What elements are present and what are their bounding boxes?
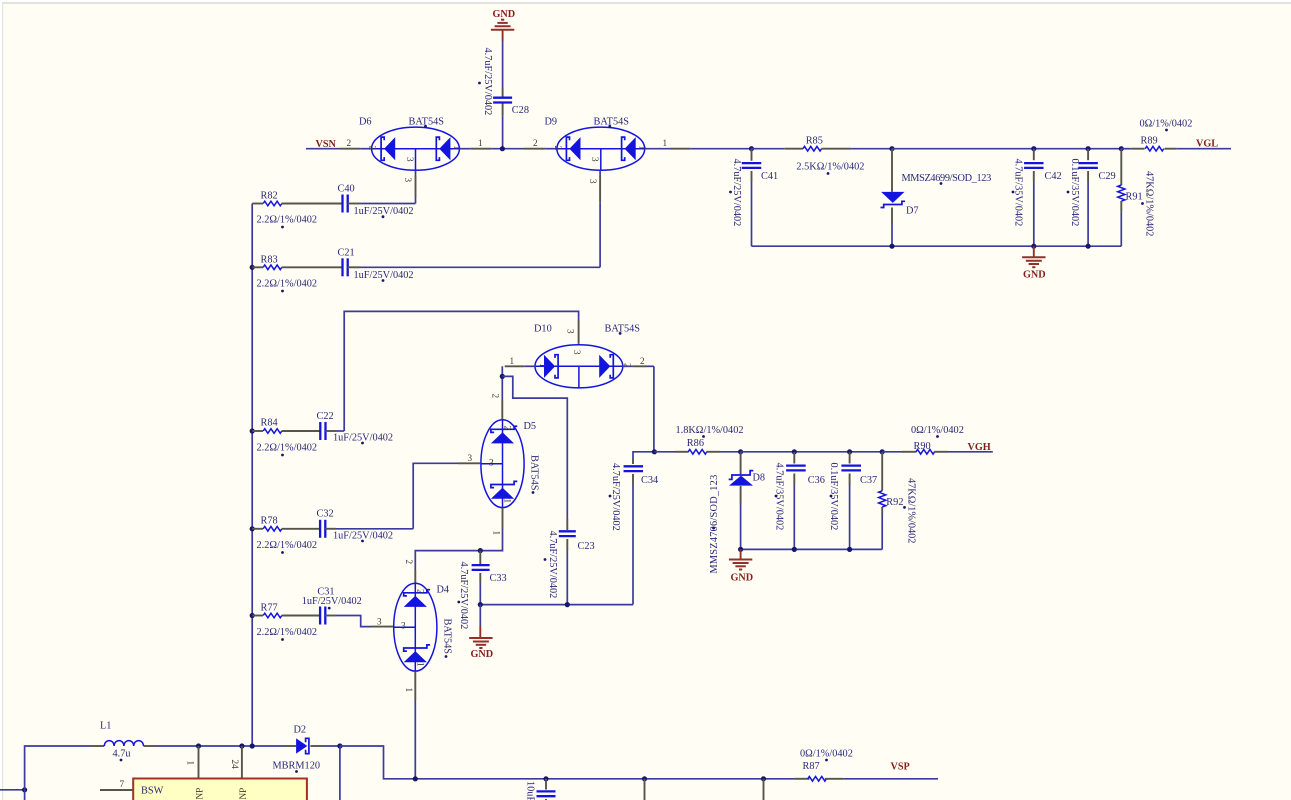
svg-text:2.2Ω/1%/0402: 2.2Ω/1%/0402 — [257, 627, 318, 638]
svg-text:MBRM120: MBRM120 — [273, 761, 321, 772]
resistor R90 0ohm + VGH — [882, 451, 902, 453]
svg-text:R86: R86 — [687, 438, 704, 449]
svg-text:47KΩ/1%/0402: 47KΩ/1%/0402 — [905, 478, 916, 543]
svg-text:0Ω/1%/0402: 0Ω/1%/0402 — [800, 749, 853, 760]
ground GND (under C33) — [479, 605, 481, 626]
svg-text:1: 1 — [538, 363, 548, 368]
ground GND (VGL filter) — [1033, 246, 1035, 257]
D10 pin2 lead + wire down to VGH row — [622, 365, 633, 367]
svg-text:R89: R89 — [1141, 136, 1158, 147]
wire node to C23 (dogleg) — [502, 376, 567, 519]
svg-text:R85: R85 — [806, 135, 823, 146]
resistor R92 47K vertical — [880, 449, 885, 454]
svg-text:D5: D5 — [524, 421, 537, 432]
svg-text:2: 2 — [640, 356, 645, 366]
resistor R83 2.2ohm — [250, 265, 255, 270]
svg-text:NP: NP — [195, 788, 205, 800]
svg-text:D10: D10 — [534, 324, 552, 335]
svg-text:BAT54S: BAT54S — [605, 324, 641, 335]
svg-text:2: 2 — [415, 589, 425, 594]
resistor R85 2.5K — [785, 148, 803, 150]
svg-text:D6: D6 — [359, 117, 372, 128]
svg-text:4.7uF/25V/0402: 4.7uF/25V/0402 — [547, 531, 558, 599]
svg-text:1: 1 — [404, 688, 414, 693]
svg-text:R91: R91 — [1126, 192, 1143, 203]
svg-text:D9: D9 — [545, 117, 558, 128]
diode D5 BAT54S (dual schottky, vertical) — [481, 420, 524, 508]
wire D9 pin1 to VGL filter — [645, 148, 671, 150]
svg-text:0Ω/1%/0402: 0Ω/1%/0402 — [911, 425, 964, 436]
VGL bottom rail — [752, 245, 1122, 247]
svg-text:3: 3 — [377, 617, 382, 627]
svg-text:2.2Ω/1%/0402: 2.2Ω/1%/0402 — [257, 540, 318, 551]
svg-text:L1: L1 — [100, 721, 111, 732]
svg-text:1.8KΩ/1%/0402: 1.8KΩ/1%/0402 — [676, 425, 744, 436]
wire VGH row to R90 — [741, 451, 883, 453]
D5 pin3 wire from C32 row — [413, 463, 458, 529]
svg-text:4.7uF/25V/0402: 4.7uF/25V/0402 — [610, 463, 621, 531]
diode D4 BAT54S (dual schottky, vertical) — [394, 583, 437, 671]
resistor R86 1.8K — [652, 449, 657, 454]
svg-text:2.5KΩ/1%/0402: 2.5KΩ/1%/0402 — [796, 161, 864, 172]
D10 pin1 lead + node to D5 — [524, 365, 536, 367]
svg-text:2: 2 — [368, 146, 378, 151]
capacitor C41 4.7uF/25V/0402 — [751, 149, 753, 161]
bottom rail (VSP net) — [415, 778, 794, 780]
svg-text:VGL: VGL — [1196, 139, 1218, 150]
capacitor C33 4.7uF/25V/0402 — [478, 548, 483, 553]
ground rail under C33/C23/C34 — [480, 604, 633, 606]
svg-text:C37: C37 — [860, 475, 877, 486]
svg-text:MMSZ4706/SOD_123: MMSZ4706/SOD_123 — [709, 475, 720, 574]
capacitor C31 1uF/25V/0402 — [319, 607, 321, 625]
svg-text:C29: C29 — [1099, 171, 1116, 182]
wire bottom-left corner — [0, 789, 25, 791]
svg-text:1: 1 — [663, 138, 668, 148]
capacitor C34 4.7uF/25V/0402 — [633, 452, 654, 458]
svg-text:1: 1 — [185, 761, 195, 766]
diode D9 BAT54S (dual schottky) — [557, 127, 645, 170]
node C41 top junction — [749, 146, 754, 151]
svg-text:GND: GND — [471, 649, 494, 660]
svg-text:GND: GND — [731, 573, 754, 584]
svg-text:C42: C42 — [1045, 171, 1062, 182]
capacitor 10uF (partially visible) — [545, 779, 547, 790]
svg-text:3: 3 — [403, 178, 413, 183]
svg-text:C33: C33 — [490, 573, 507, 584]
svg-text:R90: R90 — [914, 441, 931, 452]
wire C22 up-over to D10 pin3 — [344, 311, 578, 431]
svg-text:C41: C41 — [761, 171, 778, 182]
capacitor C22 1uF/25V/0402 — [319, 422, 321, 440]
svg-text:C32: C32 — [317, 509, 334, 520]
svg-text:2: 2 — [503, 426, 513, 431]
svg-text:R87: R87 — [803, 761, 820, 772]
svg-text:2: 2 — [533, 138, 538, 148]
VGH bottom rail — [741, 548, 883, 550]
left rail vertical x=252 — [251, 204, 253, 746]
wire GND to VSN node (vertical through C28) — [502, 41, 504, 88]
resistor R89 0ohm + VGL — [1121, 148, 1131, 150]
svg-text:D2: D2 — [294, 725, 307, 736]
svg-text:3: 3 — [468, 453, 473, 463]
svg-text:2: 2 — [491, 394, 501, 399]
resistor R82 2.2ohm — [252, 203, 263, 205]
svg-text:3: 3 — [401, 621, 406, 631]
resistor R77 2.2ohm — [250, 613, 255, 618]
svg-text:2.2Ω/1%/0402: 2.2Ω/1%/0402 — [257, 215, 318, 226]
svg-text:R82: R82 — [261, 191, 278, 202]
capacitor C42 4.7uF/35V/0402 — [1031, 146, 1036, 151]
svg-text:4.7u: 4.7u — [113, 749, 131, 760]
D6 pin3 lead going down to R82/C40 row — [415, 170, 417, 176]
wire D6 pin1 to junction and D9 pin2 — [459, 148, 470, 150]
svg-text:R78: R78 — [261, 516, 278, 527]
zener diode D8 MMSZ4706/SOD_123 — [738, 449, 743, 454]
svg-text:1: 1 — [478, 138, 483, 148]
wire D2 to bottom rail — [322, 745, 340, 747]
diode D2 MBRM120 — [285, 745, 296, 747]
svg-text:1uF/25V/0402: 1uF/25V/0402 — [354, 206, 414, 217]
svg-text:1uF/25V/0402: 1uF/25V/0402 — [302, 596, 362, 607]
svg-text:R77: R77 — [261, 603, 278, 614]
svg-text:47KΩ/1%/0402: 47KΩ/1%/0402 — [1144, 171, 1155, 236]
svg-text:GND: GND — [493, 9, 516, 20]
svg-text:VSP: VSP — [891, 762, 910, 773]
svg-text:4.7uF/25V/0402: 4.7uF/25V/0402 — [482, 48, 493, 116]
svg-text:3: 3 — [588, 179, 598, 184]
diode D6 BAT54S pin2 lead — [340, 148, 360, 150]
svg-text:MMSZ4699/SOD_123: MMSZ4699/SOD_123 — [902, 173, 992, 184]
svg-text:24: 24 — [230, 760, 240, 770]
svg-text:1: 1 — [510, 356, 515, 366]
diode D10 BAT54S (dual schottky, pointing right) — [535, 345, 623, 388]
IC U? (BSW regulator, partially visible) — [133, 779, 307, 800]
svg-text:BAT54S: BAT54S — [442, 619, 453, 655]
svg-text:C40: C40 — [338, 184, 355, 195]
svg-text:BSW: BSW — [141, 786, 164, 797]
svg-text:C22: C22 — [317, 411, 334, 422]
resistor R78 2.2ohm — [250, 526, 255, 531]
svg-text:1: 1 — [415, 662, 425, 667]
capacitor C32 1uF/25V/0402 — [319, 520, 321, 538]
IC pin 1 stub — [198, 746, 200, 779]
svg-text:C21: C21 — [338, 248, 355, 259]
svg-text:3: 3 — [566, 329, 576, 334]
page backdrop top edge — [0, 0, 1291, 2]
svg-text:C34: C34 — [641, 475, 658, 486]
resistor R84 2.2ohm — [250, 428, 255, 433]
capacitor C40 1uF/25V/0402 — [341, 195, 343, 213]
wire L1 to D2 with IC pin taps — [157, 745, 285, 747]
svg-text:3: 3 — [572, 350, 582, 355]
svg-text:BAT54S: BAT54S — [529, 455, 540, 491]
svg-text:7: 7 — [120, 779, 125, 789]
inductor L1 4.7u — [90, 745, 104, 747]
svg-text:4.7uF/25V/0402: 4.7uF/25V/0402 — [458, 562, 469, 630]
zener diode D7 MMSZ4699/SOD_123 — [889, 146, 894, 151]
D4 pin1 lead down to bottom rail — [414, 672, 416, 701]
capacitor C21 1uF/25V/0402 — [341, 258, 343, 276]
wire C31 to D4 pin3 — [336, 616, 371, 627]
D9 pin3 lead + wire down-left to C21 row — [599, 170, 601, 176]
svg-text:D7: D7 — [906, 206, 919, 217]
svg-text:VGH: VGH — [968, 442, 991, 453]
svg-text:4.7uF/25V/0402: 4.7uF/25V/0402 — [731, 159, 742, 227]
svg-text:BAT54S: BAT54S — [594, 117, 630, 128]
resistor R91 47K vertical — [1119, 146, 1124, 151]
pin stub down at x=644.5 — [644, 779, 646, 800]
svg-text:10uF: 10uF — [525, 781, 536, 800]
svg-text:C28: C28 — [512, 105, 529, 116]
svg-text:2: 2 — [553, 146, 563, 151]
ground GND (top, above C28) — [502, 30, 504, 41]
resistor R87 0ohm + VSP — [794, 778, 809, 780]
svg-text:R83: R83 — [261, 255, 278, 266]
capacitor C37 0.1uF/35V/0402 — [847, 449, 852, 454]
svg-text:2.2Ω/1%/0402: 2.2Ω/1%/0402 — [257, 443, 318, 454]
svg-text:2: 2 — [404, 560, 414, 565]
capacitor C23 4.7uF/25V/0402 — [566, 519, 568, 530]
svg-text:R84: R84 — [261, 418, 278, 429]
svg-text:3: 3 — [405, 157, 415, 162]
capacitor C29 0.1uF/35V/0402 — [1086, 146, 1091, 151]
svg-text:0.1uF/35V/0402: 0.1uF/35V/0402 — [828, 463, 839, 531]
wire R85..C42..C29..R91 top — [892, 148, 1121, 150]
junction node C28/VSN line — [500, 146, 505, 151]
IC pin 24 stub — [241, 746, 243, 779]
svg-text:3: 3 — [590, 157, 600, 162]
svg-text:0.1uF/35V/0402: 0.1uF/35V/0402 — [1069, 159, 1080, 227]
capacitor C36 4.7uF/35V/0402 — [792, 449, 797, 454]
svg-text:1: 1 — [503, 499, 513, 504]
svg-text:GND: GND — [1023, 270, 1046, 281]
IC pin 7 lead — [100, 789, 133, 791]
pin stub down at x=763.5 — [763, 779, 765, 800]
svg-text:3: 3 — [489, 458, 494, 468]
svg-text:2: 2 — [347, 138, 352, 148]
svg-text:2.2Ω/1%/0402: 2.2Ω/1%/0402 — [257, 279, 318, 290]
svg-text:NP: NP — [238, 788, 248, 800]
svg-text:D4: D4 — [437, 585, 450, 596]
capacitor C28 4.7uF/25V/0402 — [493, 97, 512, 99]
svg-text:C36: C36 — [808, 475, 825, 486]
D5 pin1 lead down + wire to D4 pin2 — [502, 508, 504, 529]
svg-text:1: 1 — [491, 531, 501, 536]
net label VSN — [306, 148, 340, 150]
ground GND (under D8) — [740, 549, 742, 559]
svg-text:R92: R92 — [886, 497, 903, 508]
diode D6 BAT54S (dual schottky) — [372, 127, 460, 170]
svg-text:VSN: VSN — [316, 139, 337, 150]
svg-text:C23: C23 — [578, 541, 595, 552]
svg-text:0Ω/1%/0402: 0Ω/1%/0402 — [1140, 119, 1193, 130]
svg-text:D8: D8 — [753, 473, 766, 484]
